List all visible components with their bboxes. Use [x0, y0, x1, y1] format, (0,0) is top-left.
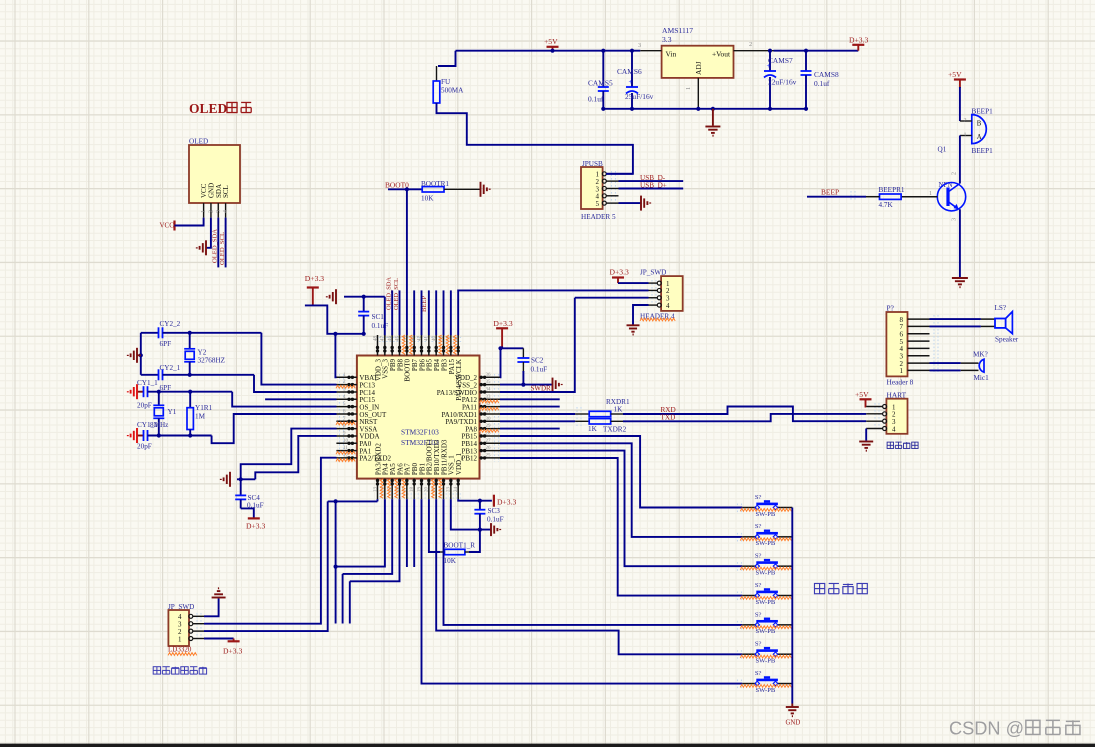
capacitor SC4 0.1uF — [240, 479, 242, 495]
svg-text:MK?: MK? — [973, 351, 988, 359]
svg-text:HEADER 5: HEADER 5 — [581, 213, 616, 221]
resistor TXDR2 1K — [589, 419, 611, 424]
MCU left pin 5 OS_IN — [336, 406, 357, 408]
svg-text:1: 1 — [201, 210, 207, 213]
ground (JP_SWD) — [627, 325, 640, 334]
MCU right pin 28 PB15 — [480, 435, 501, 437]
MCU left pin 9 VDDA — [336, 435, 357, 437]
wire PA3/RXD2 riser — [377, 499, 379, 501]
wire pin4 to ground — [633, 305, 649, 325]
wire SC4 gnd rail — [237, 478, 255, 480]
MCU top pin 37 PA14/SWCLK — [457, 335, 459, 356]
MCU bottom pin 16 PA6 — [399, 479, 401, 500]
wire PA4 to LD3320 link — [336, 499, 385, 566]
svg-text:23: 23 — [447, 487, 452, 493]
wire P? pin2 to mic — [930, 362, 961, 364]
wire PA8 — [500, 428, 560, 430]
MCU right pin 25 PB12 — [480, 457, 501, 459]
svg-text:1: 1 — [964, 132, 967, 139]
wire USB_D- — [619, 180, 684, 182]
capacitor SC1 0.1uF — [363, 297, 365, 312]
MCU right pin 27 PB14 — [480, 442, 501, 444]
wire LD3320 pin2 riser — [204, 501, 328, 631]
fuse FU 500MA — [433, 81, 440, 103]
svg-text:+5V: +5V — [948, 70, 962, 79]
svg-text:46: 46 — [388, 336, 393, 342]
MCU left pin 2 PC13 — [336, 384, 357, 386]
switch S? SW-PB row 5 — [742, 624, 756, 626]
compile mask zigzags right pins — [480, 400, 499, 403]
wire PA9 to TXDR2 — [500, 420, 575, 422]
MCU left pin 3 PC14 — [336, 391, 357, 393]
svg-text:S?: S? — [755, 641, 762, 648]
wire PA12 — [500, 398, 560, 400]
svg-text:5: 5 — [596, 200, 600, 208]
svg-text:Mic1: Mic1 — [974, 374, 990, 382]
label 语音识别模块 — [153, 667, 160, 674]
MCU U1 STM32F103 — [357, 356, 480, 479]
svg-text:20pF: 20pF — [137, 402, 152, 410]
svg-text:VDD_1: VDD_1 — [455, 452, 463, 475]
wire SC1 gnd — [344, 296, 385, 298]
svg-text:22uF/16v: 22uF/16v — [768, 78, 797, 87]
svg-text:42: 42 — [417, 336, 422, 342]
svg-text:0.1uF: 0.1uF — [487, 516, 504, 524]
MCU bottom pin 18 PB0 — [413, 479, 415, 500]
svg-text:4: 4 — [223, 210, 229, 213]
MCU top pin 45 PB8 — [399, 335, 401, 356]
wire D+3.3 rail — [305, 305, 364, 333]
svg-text:GND: GND — [786, 720, 801, 727]
svg-text:SC2: SC2 — [531, 357, 544, 365]
svg-text:1M: 1M — [195, 413, 206, 421]
ground (regulator) — [712, 109, 714, 126]
svg-text:47: 47 — [381, 336, 386, 342]
svg-text:BEEP1: BEEP1 — [972, 147, 994, 155]
wire PB2/BOOT1 to BOOT1_R — [429, 499, 440, 552]
wire OLED pin2 to ground — [206, 218, 211, 248]
svg-text:25uF/16v: 25uF/16v — [625, 92, 654, 101]
ground (OLED) — [197, 240, 206, 255]
wire PB0 stub — [413, 499, 415, 567]
MCU top pin 43 PB7 — [413, 335, 415, 356]
svg-text:CAMS5: CAMS5 — [588, 79, 613, 88]
switch S? SW-PB row 6 — [742, 653, 756, 655]
svg-text:3: 3 — [216, 210, 222, 213]
svg-text:33: 33 — [486, 395, 492, 400]
wire TXD to HART pin2 — [611, 420, 624, 422]
MCU left pin 11 PA1 — [336, 450, 357, 452]
wire JPUSB pin5 to ground — [619, 202, 642, 204]
MCU right pin 32 PA11 — [480, 406, 501, 408]
switch S? SW-PB row 3 — [742, 565, 756, 567]
svg-text:BEEP: BEEP — [821, 188, 839, 197]
wire CY1 top rail to OS_IN — [232, 392, 336, 407]
svg-text:SC3: SC3 — [488, 507, 501, 515]
svg-text:S?: S? — [755, 523, 762, 530]
wire VSS_2 to ground — [500, 384, 552, 386]
wire PB10 to switch row6 — [436, 499, 742, 654]
svg-text:45: 45 — [395, 336, 400, 342]
wire PA7 stub — [406, 499, 408, 567]
MCU left pin 8 VSSA — [336, 428, 357, 430]
svg-text:26: 26 — [486, 446, 492, 451]
wire PB13 to switch row3 — [500, 451, 742, 567]
svg-text:Vin: Vin — [666, 50, 677, 59]
pin 1 ADJ — [697, 78, 699, 109]
pin 2 Vout — [734, 50, 774, 52]
svg-text:Y1: Y1 — [168, 408, 177, 416]
MCU right pin 34 PA13/SWDIO — [480, 391, 501, 393]
wire VDD_1 to D+3.3 — [458, 499, 492, 501]
MCU bottom pin 22 PB11/RXD3 — [443, 479, 445, 500]
svg-text:34: 34 — [486, 387, 492, 392]
svg-text:OLED: OLED — [189, 101, 228, 116]
svg-text:25: 25 — [486, 453, 492, 458]
crystal Y1 8MHz — [158, 392, 160, 406]
svg-text:500MA: 500MA — [441, 87, 464, 95]
wire USB_D+ — [619, 188, 684, 190]
svg-text:Q1: Q1 — [938, 146, 947, 154]
svg-text:36: 36 — [486, 373, 492, 378]
MCU right pin 36 VDD_2 — [480, 376, 501, 378]
wire PB14 to switch row2 — [500, 443, 742, 537]
svg-text:41: 41 — [425, 336, 430, 342]
MCU left pin 10 PA0 — [336, 442, 357, 444]
svg-text:VCC: VCC — [160, 222, 175, 230]
ground (SC4) — [221, 472, 230, 487]
buzzer pin 2 — [960, 120, 972, 122]
wire JPUSB pin1 (+5V via fuse) — [606, 173, 633, 175]
svg-text:1: 1 — [178, 635, 182, 643]
compile mask zigzags top pins — [402, 335, 405, 354]
svg-text:1K: 1K — [588, 425, 598, 433]
svg-text:4: 4 — [666, 302, 670, 310]
wire PA3 to LD3320 pin2 — [328, 500, 378, 502]
svg-text:S?: S? — [755, 494, 762, 501]
svg-text:AMS1117: AMS1117 — [662, 26, 693, 35]
svg-text:D+3.3: D+3.3 — [497, 498, 516, 507]
power port D+3.3 (LD3320) — [233, 639, 235, 642]
capacitor CAMS6 22uF/16v — [631, 51, 633, 87]
svg-text:0.1uF: 0.1uF — [531, 366, 548, 374]
resistor RXDR1 1K — [589, 411, 611, 416]
wire PB11 to switch row5 — [444, 499, 743, 625]
MCU top pin 48 VDD_3 — [377, 335, 379, 356]
svg-text:2: 2 — [951, 172, 958, 175]
svg-text:B: B — [977, 121, 982, 128]
svg-text:S?: S? — [755, 553, 762, 560]
ground (VSS_2) — [553, 378, 562, 392]
base wire from resistor — [901, 196, 937, 198]
wire VCC to OLED pin1 — [175, 218, 204, 226]
svg-text:LS?: LS? — [995, 304, 1007, 312]
wire BOOT1_R to gnd rail — [465, 551, 470, 553]
svg-text:CAMS6: CAMS6 — [617, 67, 642, 76]
wire VSS_1 to ground — [451, 499, 491, 529]
wire BEEP — [807, 196, 866, 198]
compile mask zigzags bottom pins — [380, 479, 383, 498]
wire VDD_3 riser — [384, 297, 386, 336]
wire D+3.3 to SC2 — [501, 346, 503, 348]
MCU bottom pin 19 PB1 — [421, 479, 423, 500]
svg-text:40: 40 — [432, 336, 437, 342]
svg-text:Speaker: Speaker — [995, 336, 1019, 344]
wire to VBAT — [335, 334, 336, 378]
svg-text:1: 1 — [685, 87, 692, 90]
MCU top pin 44 BOOT0 — [406, 335, 408, 356]
MCU bottom pin 15 PA5 — [391, 479, 393, 500]
switch S? SW-PB row 7 — [742, 683, 756, 685]
capacitor SC2 0.1uF — [522, 348, 524, 358]
wire +5V rail — [456, 50, 641, 52]
MCU right pin 30 PA9/TXD1 — [480, 420, 501, 422]
svg-text:8MHz: 8MHz — [150, 421, 168, 429]
svg-text:A: A — [977, 134, 982, 141]
MCU bottom pin 17 PA7 — [406, 479, 408, 500]
wire VDDA path — [255, 436, 336, 479]
svg-text:+Vout: +Vout — [712, 50, 731, 59]
wire HART pin4 to ground — [865, 429, 867, 441]
resistor Y1R1 1M — [189, 392, 191, 408]
label 蓝牙模块 — [887, 442, 893, 448]
MCU left pin 1 VBAT — [336, 376, 357, 378]
wire fuse to JPUSB pin1 — [437, 103, 633, 174]
wire VSSA path — [241, 429, 337, 480]
wire PA5 — [343, 499, 393, 574]
svg-text:D+3.3: D+3.3 — [610, 268, 629, 277]
MCU bottom pin 14 PA4 — [384, 479, 386, 500]
resistor BEEPR1 4.7K — [880, 194, 902, 199]
wire emitter to ground — [959, 209, 961, 277]
switch S? SW-PB row 4 — [742, 595, 756, 597]
ground (LD3320 pin4, inverted) — [212, 588, 226, 597]
svg-text:1: 1 — [900, 367, 904, 375]
MCU right pin 31 PA10/RXD1 — [480, 413, 501, 415]
power port D+3.3 (SC3) — [493, 495, 495, 507]
svg-text:6PF: 6PF — [160, 340, 172, 348]
MCU bottom pin 24 VDD_1 — [457, 479, 459, 500]
capacitor CAMS8 0.1uf — [805, 51, 807, 71]
capacitor CAMS5 0.1uf — [602, 51, 604, 87]
wire SWDIO to pin3 — [575, 297, 649, 299]
MCU left pin 6 OS_OUT — [336, 413, 357, 415]
crystal Y2 32768HZ — [189, 333, 191, 349]
svg-text:D+3.3: D+3.3 — [493, 319, 512, 328]
svg-text:18: 18 — [410, 487, 415, 493]
ground (SC1) — [327, 289, 336, 304]
svg-text:2: 2 — [964, 117, 967, 124]
wire to PC15 — [265, 398, 336, 400]
svg-text:BOOT1_R: BOOT1_R — [444, 542, 476, 550]
wire SC4 to D+3.3 — [241, 508, 254, 518]
ground (Q1 emitter) — [952, 278, 968, 287]
svg-text:24: 24 — [454, 487, 459, 493]
ground (CY2) — [128, 348, 137, 363]
wire +5V to buzzer pin2 — [959, 80, 961, 89]
bottom bar — [0, 744, 1095, 747]
wire Y2 top rail to PC13 — [261, 333, 336, 385]
svg-text:20: 20 — [425, 487, 430, 493]
svg-text:30: 30 — [486, 417, 492, 422]
wire BOOT0 down to MCU — [406, 189, 408, 335]
svg-text:27: 27 — [486, 439, 492, 444]
wire PA10 to RXDR1 — [500, 413, 575, 415]
svg-text:0.1uf: 0.1uf — [814, 79, 830, 88]
svg-text:CAMS7: CAMS7 — [768, 56, 793, 65]
ground GND (switches) — [791, 704, 793, 708]
wire PA11 — [500, 406, 560, 408]
wire LD3320 pin1 to D+3.3 — [204, 638, 234, 640]
svg-text:D+3.3: D+3.3 — [246, 522, 265, 531]
wire P? pin1 to mic — [930, 369, 961, 371]
svg-text:20pF: 20pF — [137, 443, 152, 451]
MCU top pin 46 PB9 — [391, 335, 393, 356]
wire rail to fuse — [438, 51, 456, 66]
wire CY1 bottom rail to OS_OUT — [212, 414, 337, 443]
svg-text:Y2: Y2 — [198, 349, 207, 357]
svg-text:S?: S? — [755, 582, 762, 589]
svg-text:SC1: SC1 — [372, 313, 385, 321]
svg-text:D+3.3: D+3.3 — [305, 274, 324, 283]
MCU left pin 12 PA2/TXD2 — [336, 457, 357, 459]
svg-text:+5V: +5V — [544, 37, 558, 46]
svg-text:13: 13 — [373, 487, 378, 493]
MCU bottom pin 23 VSS_1 — [450, 479, 452, 500]
svg-text:TXDR2: TXDR2 — [603, 426, 627, 434]
svg-text:Header 8: Header 8 — [887, 378, 914, 387]
svg-text:2: 2 — [208, 210, 214, 213]
MCU left pin 4 PC15 — [336, 398, 357, 400]
selection marks (light blue) — [340, 374, 344, 462]
MCU right pin 33 PA12 — [480, 398, 501, 400]
svg-text:BOOTR1: BOOTR1 — [421, 180, 449, 188]
svg-text:4.7K: 4.7K — [879, 201, 894, 209]
svg-text:+5V: +5V — [855, 390, 869, 399]
svg-text:Y1R1: Y1R1 — [195, 404, 213, 412]
capacitor SC3 0.1uF — [479, 501, 481, 510]
MCU right pin 29 PA8 — [480, 428, 501, 430]
left link verticals — [334, 499, 338, 503]
svg-text:10K: 10K — [444, 557, 457, 565]
MCU left pin 7 NRST — [336, 420, 357, 422]
svg-text:CY2_2: CY2_2 — [160, 320, 181, 328]
switch S? SW-PB row 1 — [742, 507, 756, 509]
svg-text:29: 29 — [486, 424, 492, 429]
wire VDD_2 to D+3.3 — [500, 348, 502, 377]
pin 3 Vin — [640, 50, 661, 52]
regulator U AMS1117 3.3 — [662, 46, 734, 78]
wire buzzer to collector — [959, 136, 961, 184]
svg-text:STM32F103: STM32F103 — [401, 428, 439, 437]
svg-text:48: 48 — [373, 336, 378, 342]
svg-text:S?: S? — [755, 670, 762, 677]
svg-text:BEEPR1: BEEPR1 — [879, 186, 905, 194]
wire OLED SCL — [225, 218, 227, 268]
wire P? pin7 to speaker — [930, 325, 981, 327]
svg-text:35: 35 — [486, 380, 492, 385]
wire BOOT0 — [388, 188, 422, 190]
svg-text:D+3.3: D+3.3 — [849, 36, 868, 45]
svg-text:LD3320: LD3320 — [168, 646, 192, 654]
svg-text:PB12: PB12 — [461, 455, 477, 463]
svg-text:CAMS8: CAMS8 — [814, 70, 839, 79]
label 弹奏按键 — [814, 583, 824, 593]
svg-text:0.1uf: 0.1uf — [588, 95, 604, 104]
MCU top pin 47 VSS_3 — [384, 335, 386, 356]
wire PA6 — [350, 499, 400, 581]
switch bus — [791, 508, 793, 704]
MCU bottom pin 13 PA3/RXD2 — [377, 479, 379, 500]
svg-text:ADJ: ADJ — [694, 61, 703, 75]
wire BOOTR1 to ground — [444, 188, 481, 190]
ground (VSS_1) — [491, 523, 500, 536]
capacitor CAMS7 22uF/16v — [769, 51, 771, 71]
wire LD3320 pin4 to ground — [204, 599, 219, 617]
svg-text:CY1_1: CY1_1 — [137, 379, 158, 387]
buzzer pin 1 — [960, 135, 972, 137]
wire D+3.3 to pin1 — [618, 282, 649, 284]
MCU right pin 35 VSS_2 — [480, 384, 501, 386]
svg-text:+: + — [629, 78, 633, 86]
MCU top pin 42 PB6 — [421, 335, 423, 356]
power port D+3.3 (SC4) — [248, 517, 260, 519]
wire regulator output to rail — [774, 50, 859, 52]
resistor BOOT1_R 10K — [445, 549, 465, 554]
ground (CY1_1) — [128, 384, 137, 399]
svg-text:3: 3 — [951, 218, 958, 221]
wire Y2 bottom rail to PC14 — [254, 375, 337, 392]
wire RXD to HART pin3 — [611, 413, 624, 415]
svg-text:10: 10 — [343, 439, 349, 444]
MCU top pin 38 PA15 — [450, 335, 452, 356]
MCU bottom pin 20 PB2/BOOT1 — [428, 479, 430, 500]
svg-text:4: 4 — [892, 425, 896, 433]
wire CY2 left + ground — [140, 333, 142, 375]
svg-text:TXD: TXD — [661, 414, 676, 422]
ground (HART) — [859, 442, 873, 451]
svg-text:3.3: 3.3 — [662, 35, 672, 44]
wire SWCLK to JP_SWD pin2 — [458, 290, 648, 335]
svg-text:D+3.3: D+3.3 — [223, 647, 242, 656]
svg-text:CSDN @: CSDN @ — [949, 719, 1024, 739]
svg-text:S?: S? — [755, 611, 762, 618]
wire gnd rail — [603, 108, 806, 110]
svg-text:11: 11 — [343, 446, 348, 451]
wire PB1 to switch row7 — [422, 499, 743, 683]
ground (JPUSB) — [641, 196, 650, 211]
svg-text:32768HZ: 32768HZ — [198, 357, 226, 365]
svg-text:19: 19 — [417, 487, 422, 493]
MCU right pin 26 PB13 — [480, 450, 501, 452]
wire SWDIO riser — [500, 298, 575, 392]
resistor BOOTR1 10K — [422, 187, 444, 192]
MCU bottom pin 21 PB10/TXD3 — [435, 479, 437, 500]
MCU top pin 40 PB4 — [435, 335, 437, 356]
svg-text:SCL: SCL — [222, 185, 230, 198]
MCU top pin 41 PB5 — [428, 335, 430, 356]
svg-text:10K: 10K — [421, 195, 434, 203]
wire PB12 to switch row4 — [500, 458, 742, 596]
MCU top pin 39 PB3 — [443, 335, 445, 356]
svg-text:FU: FU — [441, 78, 451, 86]
compile mask zigzags left pins — [336, 385, 355, 388]
ground (BOOTR1) — [481, 182, 490, 197]
switch S? SW-PB row 2 — [742, 536, 756, 538]
svg-text:3: 3 — [638, 42, 641, 49]
wire PB15 to switch row1 — [500, 436, 742, 508]
wires top pins rising — [391, 290, 393, 335]
